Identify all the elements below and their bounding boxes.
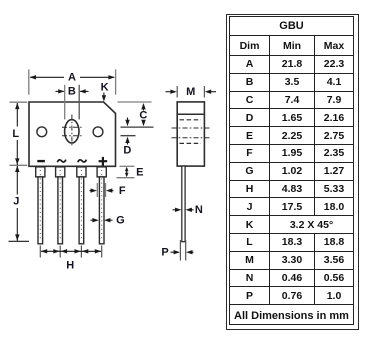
side view top band line <box>177 113 204 115</box>
side view centerline lower <box>172 137 211 139</box>
svg-text:B: B <box>68 86 76 98</box>
dimension B <box>56 85 89 120</box>
ac terminal mark 1 <box>57 160 65 163</box>
oval centerline horizontal upper <box>62 126 82 128</box>
lead 4 <box>97 167 106 244</box>
svg-text:K: K <box>101 82 109 94</box>
side view lead <box>182 166 185 242</box>
svg-text:J: J <box>13 196 19 208</box>
lead 1 <box>36 167 45 244</box>
plus terminal mark <box>99 157 108 166</box>
dimension C <box>118 102 154 127</box>
dimensions table <box>229 16 354 325</box>
center oval hole <box>65 120 79 143</box>
side view body <box>177 102 204 166</box>
dimension L <box>10 102 28 165</box>
dimension M <box>166 86 217 98</box>
dimension K label and arrow <box>101 82 109 102</box>
oval centerline vertical <box>71 115 73 148</box>
svg-text:A: A <box>68 72 76 84</box>
side view dashed line upper <box>180 119 202 121</box>
dimensions table outer frame <box>226 14 359 330</box>
svg-text:M: M <box>186 86 195 98</box>
right mounting hole circle <box>93 127 103 137</box>
svg-text:E: E <box>136 167 143 179</box>
oval centerline horizontal lower <box>62 135 82 137</box>
svg-text:C: C <box>139 109 147 121</box>
minus terminal mark <box>37 160 45 162</box>
front view package body <box>29 102 116 166</box>
svg-text:D: D <box>123 145 131 157</box>
dimension D <box>121 118 136 157</box>
dimension J <box>9 166 30 242</box>
side view dashed line lower <box>180 142 202 144</box>
svg-text:L: L <box>12 128 19 140</box>
lead 3 <box>77 167 86 244</box>
ac terminal mark 2 <box>78 160 86 163</box>
dimension E <box>117 166 144 178</box>
lead 2 <box>56 167 65 244</box>
svg-text:N: N <box>195 204 203 216</box>
svg-text:P: P <box>161 247 168 259</box>
dimension P <box>161 240 193 261</box>
dimension H <box>40 246 101 272</box>
dimension N <box>173 204 203 216</box>
svg-text:G: G <box>116 214 125 226</box>
dimension F <box>90 183 126 197</box>
svg-text:F: F <box>119 185 126 197</box>
svg-text:H: H <box>66 259 74 271</box>
left mounting hole circle <box>37 127 47 137</box>
side view centerline upper <box>172 127 211 129</box>
dimension A <box>29 69 116 94</box>
dimension G <box>91 214 125 226</box>
